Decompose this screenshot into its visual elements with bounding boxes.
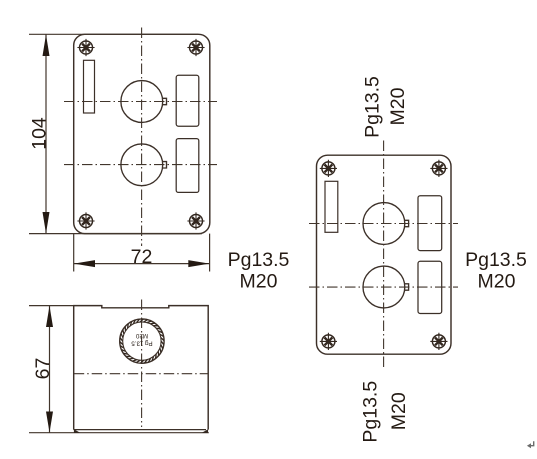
bottom inner edge: [74, 429, 206, 431]
left foot chamfer: [74, 429, 81, 433]
pushbutton hole 2: [121, 144, 167, 186]
cable gland knurled ring hatch: [120, 319, 164, 363]
cable gland outer circle: [120, 319, 164, 363]
svg-text:M20: M20: [387, 87, 409, 125]
dimension line 104: [45, 34, 47, 233]
arrow 104 top: [43, 35, 50, 57]
horizontal centerline upper hole: [309, 223, 458, 225]
svg-text:M20: M20: [240, 271, 278, 293]
dimension line 72: [74, 263, 210, 265]
horizontal centerline lower hole: [64, 164, 217, 166]
screw bottom-right: [187, 212, 204, 229]
screw bottom-left: [77, 212, 94, 229]
svg-text:Pg 13.5: Pg 13.5: [131, 340, 153, 347]
screw bottom-right: [430, 333, 447, 350]
svg-text:M20: M20: [388, 392, 410, 430]
vertical centerline: [141, 28, 143, 247]
vertical centerline: [141, 300, 143, 428]
right extension line (72): [209, 234, 211, 272]
right foot chamfer: [202, 429, 209, 433]
top extension line (67): [29, 305, 74, 307]
arrow 104 bottom: [43, 212, 50, 233]
pushbutton hole 1: [121, 81, 167, 123]
screw top-right: [187, 39, 204, 56]
contact window 2: [418, 261, 442, 313]
svg-text:Pg13.5: Pg13.5: [361, 76, 383, 138]
svg-text:104: 104: [28, 117, 50, 150]
base line with extension (67): [29, 432, 209, 434]
bottom extension line (104): [29, 233, 202, 235]
top extension line (104): [29, 33, 198, 35]
horizontal centerline upper hole: [64, 101, 217, 103]
vertical centerline: [383, 141, 385, 370]
svg-text:67: 67: [32, 358, 54, 380]
arrow 67 bottom: [46, 412, 53, 433]
contact window 1: [418, 196, 442, 251]
arrow 72 right: [188, 260, 209, 267]
side view outline with lid recess: [74, 306, 209, 430]
enclosure front outline: [74, 34, 210, 233]
svg-text:72: 72: [131, 246, 153, 268]
horizontal centerline lower hole: [309, 286, 458, 288]
horizontal centerline: [74, 373, 209, 375]
return mark: [530, 441, 534, 445]
pushbutton hole 2: [363, 266, 409, 308]
svg-text:Pg13.5: Pg13.5: [228, 249, 290, 271]
dimension line 67: [49, 306, 51, 433]
svg-text:Pg13.5: Pg13.5: [465, 249, 527, 271]
contact window 2: [176, 139, 199, 193]
svg-text:Pg13.5: Pg13.5: [360, 381, 382, 443]
arrow 67 top: [46, 306, 53, 327]
screw top-left: [77, 39, 94, 56]
enclosure front outline: [317, 155, 452, 354]
side slot: [84, 60, 95, 113]
arrow 72 left: [74, 260, 95, 267]
contact window 1: [176, 75, 199, 126]
screw top-right: [430, 160, 447, 177]
screw bottom-left: [320, 333, 337, 350]
svg-text:M20: M20: [478, 270, 516, 292]
pushbutton hole 1: [363, 203, 409, 245]
svg-text:M20: M20: [135, 332, 148, 339]
cable gland inner circle: [123, 322, 161, 360]
screw top-left: [320, 160, 337, 177]
cable gland label (rotated 180): [131, 332, 153, 347]
left extension line (72): [73, 234, 75, 272]
side slot: [325, 181, 338, 232]
